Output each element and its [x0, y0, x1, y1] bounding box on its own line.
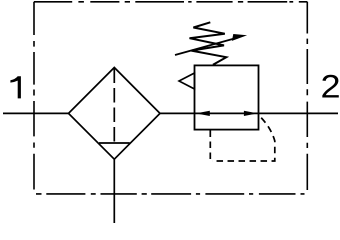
adjustment spring [190, 22, 227, 65]
pilot line left leg [209, 131, 211, 162]
drain line [113, 159, 115, 223]
enclosure boundary bottom edge (dash-dot) [36, 193, 305, 195]
enclosure boundary top edge (dash-dot) [34, 1, 307, 3]
adjustment arrowhead [232, 34, 247, 41]
relief vent triangle [179, 73, 195, 89]
wire: flow line through regulator [195, 112, 259, 114]
flow arrowhead left [196, 111, 210, 116]
filter element (dashed centerline) [113, 69, 115, 144]
svg-text:2: 2 [320, 69, 340, 105]
adjustment arrow shaft [175, 38, 238, 56]
regulator R1 (body) [195, 65, 259, 129]
wire: flow line filter to regulator box [160, 112, 195, 114]
enclosure boundary left edge (dash-dot) [33, 2, 35, 190]
flow arrowhead right [244, 111, 258, 116]
enclosure boundary right edge (dash-dot) [306, 2, 308, 190]
wire: flow line regulator to port 2 [259, 112, 339, 114]
pilot control line (dashed loop) [212, 115, 275, 162]
filter F1 (diamond) [69, 68, 161, 160]
wire: main flow line port1 to filter [3, 112, 69, 114]
water separator chord [99, 142, 130, 144]
port label 1 [10, 76, 21, 98]
